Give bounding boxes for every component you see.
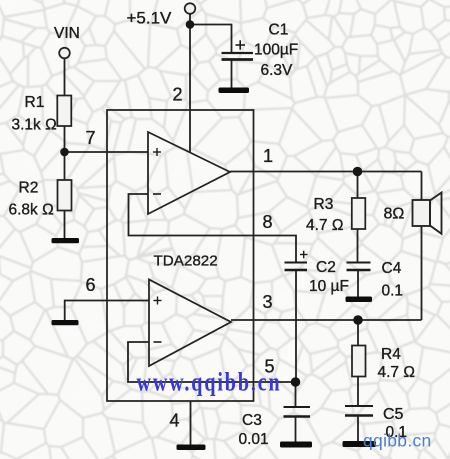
- op-amp U1A triangle: [148, 132, 230, 214]
- ground below C5: [343, 441, 377, 447]
- svg-text:R4: R4: [381, 346, 401, 363]
- svg-text:6: 6: [86, 275, 96, 295]
- wire U1B output pin 3: [231, 319, 422, 321]
- ground below C3: [280, 442, 312, 448]
- capacitor C2 polarity plus: [300, 251, 308, 259]
- wire U1A output pin 1 to speaker line: [230, 171, 422, 173]
- svg-text:10 µF: 10 µF: [309, 278, 349, 295]
- wire node B to R3: [357, 172, 359, 199]
- wire C5 to ground: [357, 416, 359, 442]
- svg-text:7: 7: [86, 128, 96, 148]
- speaker LS1 horn: [430, 193, 442, 234]
- capacitor C3 plates: [284, 407, 311, 417]
- svg-text:8: 8: [263, 212, 273, 232]
- svg-text:C5: C5: [383, 406, 404, 423]
- wire node C to R4: [357, 320, 359, 346]
- wire node D to C3: [295, 382, 297, 407]
- wire speaker branch vertical: [421, 172, 423, 321]
- svg-text:VIN: VIN: [54, 25, 80, 42]
- wire VIN terminal to R1: [64, 58, 66, 95]
- op-amp U1B plus input mark: [154, 297, 162, 305]
- svg-text:TDA2822: TDA2822: [154, 253, 218, 270]
- wire node A to R2: [64, 152, 66, 180]
- ground below C4: [346, 297, 373, 303]
- wire U1B feedback pin 5 to node D: [128, 342, 296, 382]
- resistor R4: [352, 346, 366, 377]
- svg-text:4.7 Ω: 4.7 Ω: [378, 364, 415, 381]
- capacitor C2 plates: [285, 263, 308, 271]
- wire supply node to C1: [190, 25, 232, 54]
- capacitor C5 plates: [345, 406, 373, 416]
- svg-text:0.01: 0.01: [239, 431, 269, 448]
- resistor R2: [58, 180, 72, 211]
- resistor R1: [57, 96, 71, 127]
- wire R4 to C5: [357, 377, 359, 407]
- ground below R2: [52, 238, 80, 243]
- svg-text:4: 4: [170, 411, 180, 431]
- node A junction dot: [60, 148, 69, 157]
- ground at pin 6: [52, 320, 79, 325]
- wire +5.1V terminal to supply node: [189, 14, 191, 25]
- wire pin 4 of U1 to ground: [190, 401, 192, 445]
- wire R3 to C4: [357, 229, 359, 262]
- capacitor C1 plates: [222, 53, 254, 60]
- ground at pin 4: [177, 445, 206, 451]
- svg-text:6.8k Ω: 6.8k Ω: [9, 202, 54, 219]
- svg-text:C4: C4: [382, 260, 402, 277]
- speaker LS1 coil box: [413, 200, 431, 226]
- node C junction dot (pin3/R4/speaker): [353, 315, 363, 325]
- svg-text:100µF: 100µF: [254, 42, 298, 59]
- svg-text:C2: C2: [316, 259, 336, 276]
- op-amp U1A minus input mark: [153, 193, 161, 195]
- wire C1 to ground: [231, 60, 233, 89]
- wire C3 to ground: [295, 417, 297, 442]
- svg-text:C1: C1: [269, 22, 289, 39]
- node B junction dot (pin1/R3/speaker): [353, 167, 363, 177]
- op-amp U1B triangle: [149, 280, 231, 367]
- svg-text:R3: R3: [314, 196, 334, 213]
- svg-text:4.7 Ω: 4.7 Ω: [306, 217, 343, 234]
- wire C4 to ground: [357, 270, 359, 297]
- svg-text:1: 1: [263, 146, 273, 166]
- wire node A to op-amp U1A + input (pin 7): [65, 151, 149, 153]
- op-amp U1A plus input mark: [153, 148, 161, 156]
- wire R2 to ground: [64, 211, 66, 241]
- wire supply node to pin 2 of U1: [189, 25, 191, 154]
- svg-text:+5.1V: +5.1V: [127, 9, 173, 28]
- terminal VIN: [59, 48, 70, 59]
- svg-text:0.1: 0.1: [382, 283, 404, 300]
- svg-text:R1: R1: [25, 94, 45, 111]
- terminal +5.1V: [185, 3, 196, 14]
- wire R1 to node A: [64, 126, 66, 152]
- node D junction dot (pin5/C2/C3): [291, 377, 301, 387]
- svg-text:www.qqibb.cn: www.qqibb.cn: [137, 368, 282, 397]
- op-amp U1B minus input mark: [154, 341, 162, 343]
- svg-text:3.1k Ω: 3.1k Ω: [12, 117, 57, 134]
- svg-text:8Ω: 8Ω: [384, 206, 405, 223]
- supply node junction dot: [186, 20, 195, 29]
- svg-text:2: 2: [173, 85, 183, 105]
- capacitor C4 plates: [347, 263, 371, 271]
- svg-text:6.3V: 6.3V: [261, 62, 294, 79]
- watermark www.qqibb.cn: [137, 368, 282, 397]
- svg-text:qqibb.cn: qqibb.cn: [363, 431, 432, 451]
- wire U1A feedback pin 8 to C2: [129, 194, 297, 262]
- capacitor C1 polarity plus: [236, 40, 246, 49]
- ground below C1: [219, 88, 250, 94]
- wire C2 to node D (pin 5): [295, 270, 297, 383]
- svg-text:3: 3: [263, 292, 273, 312]
- wire ground to pin 6 of U1B: [65, 301, 149, 321]
- svg-text:C3: C3: [242, 412, 262, 429]
- resistor R3: [352, 198, 366, 229]
- IC U1 TDA2822 outline: [107, 110, 254, 401]
- svg-text:R2: R2: [19, 180, 39, 197]
